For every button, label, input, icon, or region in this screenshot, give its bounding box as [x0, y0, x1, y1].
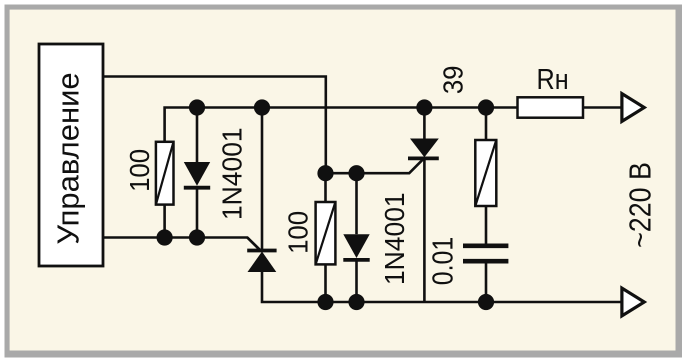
wire: gate rail of VS2 (from drop node to diagonal)	[326, 158, 424, 173]
resistor R2 100 (vertical, rect with diagonal)	[316, 173, 336, 302]
output terminal bottom (to mains)	[622, 288, 644, 316]
resistor R1 100 (vertical, rect with diagonal)	[156, 142, 174, 238]
svg-text:Управление: Управление	[51, 72, 86, 244]
load resistor Rн (horizontal)	[518, 97, 584, 117]
thyristor VS1 (cathode up to top rail, anode down to bottom rail, gate left)	[247, 108, 276, 273]
svg-text:1N4001: 1N4001	[379, 192, 411, 285]
junction: VD1 bottom / control bottom wire	[189, 229, 205, 245]
svg-text:100: 100	[124, 149, 155, 192]
diode VD2 1N4001 (vertical, cathode down)	[343, 173, 369, 302]
svg-text:~220 В: ~220 В	[624, 162, 658, 248]
wire: control bottom output to VS1 gate	[103, 238, 260, 251]
diode VD1 1N4001 (vertical, cathode down)	[184, 108, 210, 238]
svg-text:39: 39	[437, 66, 468, 95]
svg-text:1N4001: 1N4001	[216, 127, 248, 220]
svg-text:100: 100	[282, 211, 313, 254]
wire: Rн right end to top output terminal	[583, 106, 621, 109]
junction: VD2 bottom / bottom rail	[348, 294, 364, 310]
junction: R2 top / VS2 gate rail	[317, 165, 333, 181]
junction: VD1 top / top rail	[189, 99, 205, 115]
resistor R3 39 (vertical, rect with diagonal, snubber)	[475, 108, 496, 244]
junction: VS2 anode / top rail	[416, 99, 432, 115]
wire: top rail from R1 top corner to Rн left end	[165, 108, 518, 143]
svg-text:0.01: 0.01	[427, 237, 459, 286]
junction: C1 bottom / bottom rail	[478, 294, 494, 310]
junction: VS1 cathode / top rail	[254, 99, 270, 115]
wire: VS1 anode down, bottom rail to bottom output terminal	[262, 272, 621, 302]
capacitor C1 0.01 (snubber)	[463, 246, 508, 302]
junction: VD2 top / VS2 gate rail	[348, 165, 364, 181]
thyristor VS2 (anode up to top rail, cathode down to bottom rail, gate left)	[408, 108, 439, 303]
junction: R1 bottom / control bottom wire	[157, 229, 173, 245]
wire: control top output to gate node of VS2 (horizontal then down, crosses top rail)	[103, 77, 326, 174]
junction: R2 bottom / bottom rail	[317, 294, 333, 310]
control block U1 "Управление"	[39, 44, 103, 266]
output terminal top (to mains)	[622, 94, 644, 122]
svg-text:Rн: Rн	[537, 62, 569, 95]
junction: R3 top / top rail	[478, 99, 494, 115]
